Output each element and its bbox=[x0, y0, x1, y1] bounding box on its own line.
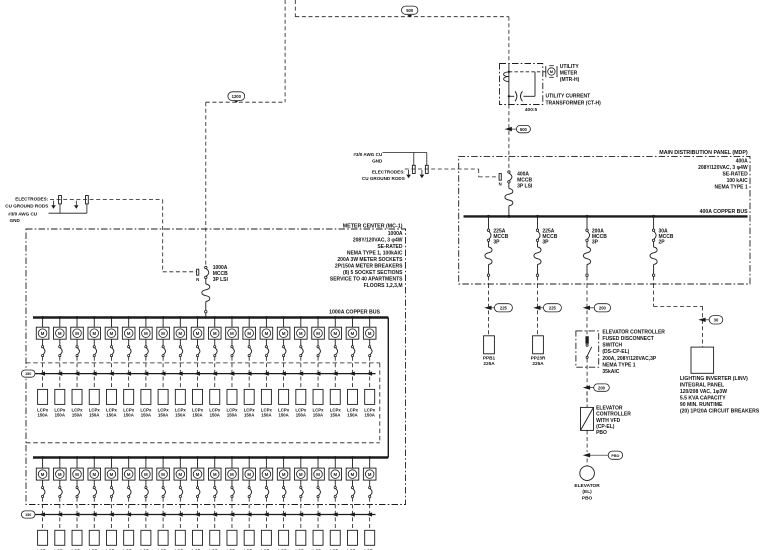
svg-text:M: M bbox=[110, 472, 114, 477]
svg-text:M: M bbox=[299, 331, 303, 336]
svg-text:M: M bbox=[110, 331, 114, 336]
svg-text:1200: 1200 bbox=[232, 94, 242, 99]
svg-text:FLOORS 1,2,3,M: FLOORS 1,2,3,M bbox=[364, 283, 403, 289]
svg-text:METER CENTER (MC-1): METER CENTER (MC-1) bbox=[343, 223, 403, 229]
svg-text:M: M bbox=[161, 472, 165, 477]
svg-text:CU GROUND RODS: CU GROUND RODS bbox=[362, 176, 405, 181]
svg-text:M: M bbox=[316, 331, 320, 336]
svg-text:NEMA TYPE 1: NEMA TYPE 1 bbox=[602, 362, 635, 368]
svg-text:150A: 150A bbox=[244, 412, 254, 417]
svg-text:M: M bbox=[144, 472, 148, 477]
svg-text:225A: 225A bbox=[532, 361, 544, 366]
svg-text:150A: 150A bbox=[313, 412, 323, 417]
svg-text:3P LSI: 3P LSI bbox=[517, 183, 533, 189]
svg-text:3P: 3P bbox=[592, 240, 599, 246]
svg-text:2P/150A METER BREAKERS: 2P/150A METER BREAKERS bbox=[335, 264, 403, 270]
svg-text:M: M bbox=[92, 472, 96, 477]
svg-text:1000A COPPER BUS: 1000A COPPER BUS bbox=[329, 309, 380, 315]
svg-text:M: M bbox=[161, 331, 165, 336]
svg-text:SERVICE TO 40 APARTMENTS: SERVICE TO 40 APARTMENTS bbox=[330, 277, 403, 283]
svg-text:500: 500 bbox=[406, 8, 414, 13]
svg-text:M: M bbox=[58, 331, 62, 336]
svg-text:150A: 150A bbox=[227, 412, 237, 417]
svg-text:200: 200 bbox=[598, 385, 606, 390]
svg-text:INTEGRAL PANEL: INTEGRAL PANEL bbox=[680, 382, 724, 388]
svg-text:PBO: PBO bbox=[596, 430, 607, 436]
svg-text:TRANSFORMER (CT-H): TRANSFORMER (CT-H) bbox=[546, 100, 602, 106]
svg-text:PPB1: PPB1 bbox=[483, 356, 496, 361]
svg-text:M: M bbox=[144, 331, 148, 336]
svg-text:ELEVATOR: ELEVATOR bbox=[574, 483, 600, 489]
svg-text:M: M bbox=[179, 331, 183, 336]
svg-text:150A: 150A bbox=[55, 412, 65, 417]
svg-text:150A: 150A bbox=[158, 412, 168, 417]
svg-text:M: M bbox=[230, 472, 234, 477]
svg-text:225: 225 bbox=[549, 306, 557, 311]
svg-text:(DS-CP-EL): (DS-CP-EL) bbox=[602, 349, 629, 355]
svg-text:GND: GND bbox=[372, 158, 383, 163]
svg-text:208Y/120VAC, 3 φ4W: 208Y/120VAC, 3 φ4W bbox=[353, 238, 403, 244]
svg-text:M: M bbox=[368, 331, 372, 336]
svg-text:M: M bbox=[247, 331, 251, 336]
svg-text:150: 150 bbox=[25, 372, 31, 376]
svg-text:M: M bbox=[196, 331, 200, 336]
svg-text:150A: 150A bbox=[261, 412, 271, 417]
svg-text:METER: METER bbox=[560, 70, 578, 76]
svg-text:M: M bbox=[265, 331, 269, 336]
svg-text:M: M bbox=[58, 472, 62, 477]
svg-text:M: M bbox=[351, 331, 355, 336]
svg-text:M: M bbox=[230, 331, 234, 336]
svg-text:150A: 150A bbox=[347, 412, 357, 417]
svg-text:150A: 150A bbox=[296, 412, 306, 417]
svg-text:M: M bbox=[282, 472, 286, 477]
svg-text:120/208 VAC, 1φ3W: 120/208 VAC, 1φ3W bbox=[680, 389, 727, 395]
svg-text:SE-RATED: SE-RATED bbox=[723, 171, 749, 177]
svg-text:ELEVATOR: ELEVATOR bbox=[596, 405, 623, 411]
svg-text:(CP-EL): (CP-EL) bbox=[596, 424, 615, 430]
svg-text:150A: 150A bbox=[330, 412, 340, 417]
svg-text:150A: 150A bbox=[192, 412, 202, 417]
svg-text:M: M bbox=[213, 472, 217, 477]
svg-text:35kAIC: 35kAIC bbox=[602, 369, 619, 375]
svg-text:400A COPPER BUS: 400A COPPER BUS bbox=[700, 209, 748, 215]
svg-text:M: M bbox=[127, 331, 131, 336]
svg-text:M: M bbox=[282, 331, 286, 336]
svg-text:SE-RATED: SE-RATED bbox=[377, 244, 403, 250]
svg-text:5.5 KVA CAPACITY: 5.5 KVA CAPACITY bbox=[680, 395, 726, 401]
svg-text:M: M bbox=[75, 472, 79, 477]
svg-text:500: 500 bbox=[520, 127, 528, 132]
svg-text:N: N bbox=[499, 181, 502, 186]
svg-text:#3/0 AWG CU: #3/0 AWG CU bbox=[353, 152, 383, 157]
svg-text:M: M bbox=[196, 472, 200, 477]
svg-text:SWITCH: SWITCH bbox=[602, 343, 622, 349]
svg-text:M: M bbox=[351, 472, 355, 477]
svg-text:150A: 150A bbox=[89, 412, 99, 417]
svg-text:UTILITY: UTILITY bbox=[560, 64, 580, 70]
svg-text:(8) 5 SOCKET SECTIONS: (8) 5 SOCKET SECTIONS bbox=[343, 270, 403, 276]
svg-text:(MTR-H): (MTR-H) bbox=[560, 77, 580, 83]
svg-text:M: M bbox=[368, 472, 372, 477]
svg-text:ELEVATOR CONTROLLER: ELEVATOR CONTROLLER bbox=[602, 329, 665, 335]
svg-text:150A: 150A bbox=[278, 412, 288, 417]
svg-text:3P: 3P bbox=[493, 240, 500, 246]
svg-text:30: 30 bbox=[714, 318, 719, 323]
svg-text:ELECTRODES:: ELECTRODES: bbox=[15, 197, 48, 202]
svg-text:100 kAIC: 100 kAIC bbox=[727, 178, 749, 184]
svg-text:NEMA TYPE 1: NEMA TYPE 1 bbox=[715, 184, 748, 190]
svg-text:200A, 208Y/120VAC,3P: 200A, 208Y/120VAC,3P bbox=[602, 356, 656, 362]
svg-text:M: M bbox=[333, 472, 337, 477]
svg-text:#3/0 AWG CU: #3/0 AWG CU bbox=[8, 211, 38, 216]
svg-text:M: M bbox=[299, 472, 303, 477]
svg-text:2P: 2P bbox=[659, 240, 666, 246]
svg-text:GND: GND bbox=[10, 218, 21, 223]
svg-text:ELECTRODES:: ELECTRODES: bbox=[372, 169, 405, 174]
svg-text:3P LSI: 3P LSI bbox=[213, 277, 229, 283]
svg-text:M: M bbox=[316, 472, 320, 477]
svg-text:M: M bbox=[41, 331, 45, 336]
svg-text:M: M bbox=[75, 331, 79, 336]
svg-text:M: M bbox=[41, 472, 45, 477]
svg-text:(20) 1P/20A CIRCUIT BREAKERS: (20) 1P/20A CIRCUIT BREAKERS bbox=[680, 408, 760, 414]
svg-text:150A: 150A bbox=[72, 412, 82, 417]
svg-text:(EL): (EL) bbox=[582, 489, 592, 495]
svg-text:PBO: PBO bbox=[611, 454, 619, 458]
svg-text:200: 200 bbox=[599, 306, 607, 311]
svg-text:WITH VFD: WITH VFD bbox=[596, 418, 621, 424]
svg-text:400A: 400A bbox=[736, 158, 748, 164]
svg-text:1000A: 1000A bbox=[388, 231, 403, 237]
svg-text:3P: 3P bbox=[542, 240, 549, 246]
svg-text:150A: 150A bbox=[106, 412, 116, 417]
svg-text:FUSED DISCONNECT: FUSED DISCONNECT bbox=[602, 336, 653, 342]
svg-text:CU GROUND RODS: CU GROUND RODS bbox=[5, 203, 48, 208]
svg-text:150A: 150A bbox=[124, 412, 134, 417]
svg-text:150A: 150A bbox=[175, 412, 185, 417]
svg-text:PP23R: PP23R bbox=[531, 356, 546, 361]
svg-text:M: M bbox=[265, 472, 269, 477]
svg-text:M: M bbox=[213, 331, 217, 336]
svg-text:225A: 225A bbox=[483, 361, 495, 366]
svg-text:M: M bbox=[179, 472, 183, 477]
svg-text:150: 150 bbox=[25, 513, 31, 517]
svg-text:M: M bbox=[92, 331, 96, 336]
svg-text:LIGHTING INVERTER (LINV): LIGHTING INVERTER (LINV) bbox=[680, 376, 748, 382]
svg-text:150A: 150A bbox=[37, 412, 47, 417]
svg-text:M: M bbox=[127, 472, 131, 477]
svg-text:225: 225 bbox=[500, 306, 508, 311]
svg-text:208Y/120VAC, 3 φ4W: 208Y/120VAC, 3 φ4W bbox=[698, 165, 748, 171]
svg-text:M: M bbox=[333, 331, 337, 336]
svg-text:N: N bbox=[196, 277, 199, 282]
svg-text:150A: 150A bbox=[365, 412, 375, 417]
svg-text:400:5: 400:5 bbox=[525, 107, 538, 113]
svg-text:150A: 150A bbox=[210, 412, 220, 417]
svg-text:MAIN DISTRIBUTION PANEL (MDP): MAIN DISTRIBUTION PANEL (MDP) bbox=[659, 150, 748, 156]
svg-text:NEMA TYPE 1, 100kAIC: NEMA TYPE 1, 100kAIC bbox=[347, 251, 403, 257]
svg-text:200A 3W METER SOCKETS: 200A 3W METER SOCKETS bbox=[337, 257, 403, 263]
svg-text:M: M bbox=[247, 472, 251, 477]
svg-text:PBO: PBO bbox=[582, 496, 593, 502]
svg-text:UTILITY CURRENT: UTILITY CURRENT bbox=[546, 94, 591, 100]
svg-text:150A: 150A bbox=[141, 412, 151, 417]
svg-text:CONTROLLER: CONTROLLER bbox=[596, 412, 631, 418]
svg-text:90 MIN. RUNTIME: 90 MIN. RUNTIME bbox=[680, 402, 723, 408]
